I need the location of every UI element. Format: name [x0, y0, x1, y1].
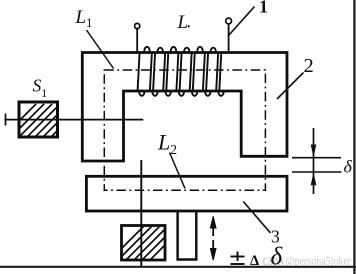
core 2 (inverted-U yoke outline)	[82, 53, 287, 162]
leader line from 2	[277, 73, 304, 100]
gap dimension extension line top	[292, 157, 341, 159]
armature stem	[178, 212, 197, 260]
hatch block hatching	[104, 226, 184, 266]
svg-text:@persona5joker: @persona5joker	[286, 254, 352, 268]
push rod through hatch block	[140, 160, 142, 267]
gap dimension extension line bottom	[292, 171, 342, 173]
coil bottom arcs	[139, 91, 144, 96]
right terminal circle	[226, 18, 232, 24]
svg-text:δ: δ	[344, 157, 353, 177]
armature 3 (bottom bar)	[86, 176, 287, 211]
svg-text:2: 2	[304, 55, 314, 77]
coil top arcs	[144, 47, 149, 52]
leader line from 3	[243, 202, 270, 234]
leader line to label 1	[229, 7, 255, 36]
bottom page border	[0, 266, 356, 268]
sensor block S1	[19, 102, 58, 137]
left terminal circle	[135, 23, 140, 28]
svg-text:Δ: Δ	[250, 253, 259, 269]
gap arrowhead up	[311, 172, 317, 185]
left terminal wire	[136, 29, 138, 53]
label plus-minus	[231, 252, 245, 265]
coil slat lines	[138, 52, 140, 90]
hatch block under rod	[122, 226, 166, 261]
gap dimension arrow line	[313, 128, 315, 194]
rod end tick	[5, 114, 7, 126]
ink dot after L	[188, 25, 190, 27]
flux center line (dash-dot loop)	[104, 70, 265, 190]
leader line from L2	[170, 153, 186, 189]
armature rod	[5, 119, 144, 121]
svg-text:L2: L2	[157, 130, 177, 158]
svg-text:1: 1	[259, 0, 268, 17]
coil L turns	[138, 47, 224, 96]
right terminal wire	[228, 24, 230, 53]
svg-text:L: L	[177, 12, 189, 33]
motion double arrow	[210, 216, 216, 260]
svg-text:L1: L1	[75, 7, 93, 30]
gap arrowhead down	[311, 145, 317, 158]
svg-text:δ: δ	[271, 244, 283, 271]
right page border	[353, 0, 355, 274]
leader line from L1	[87, 30, 114, 69]
svg-text:S1: S1	[33, 76, 48, 101]
S1 hatching	[0, 104, 84, 144]
